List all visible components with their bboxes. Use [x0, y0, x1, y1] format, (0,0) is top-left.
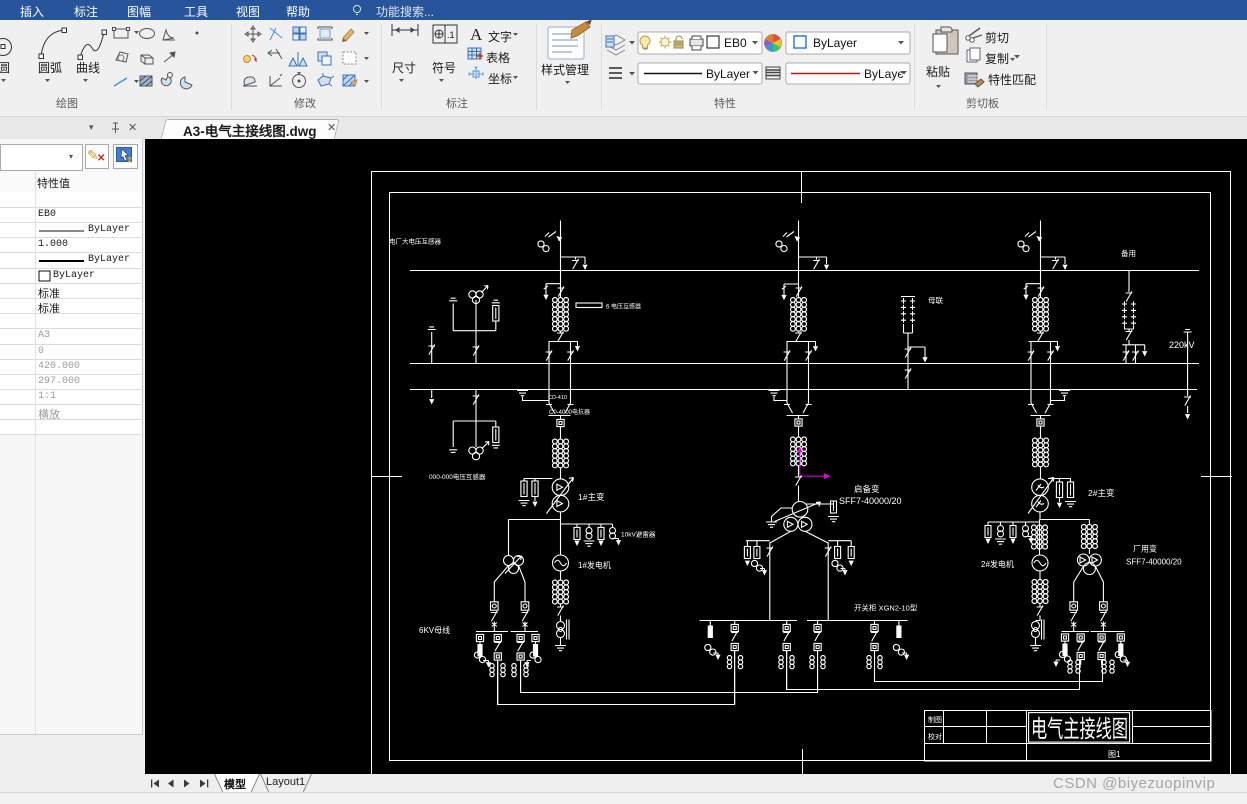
ground hook F2: [769, 391, 787, 401]
main transformer T2: [1028, 478, 1054, 514]
svg-text:000-000电压互感器: 000-000电压互感器: [429, 472, 486, 481]
sheet outer frame: [372, 172, 1231, 780]
svg-text:2#发电机: 2#发电机: [981, 559, 1014, 569]
wire below G2: [1039, 571, 1041, 580]
insulator string backup left: [1122, 301, 1127, 325]
disconnect F3 below chain: [1037, 331, 1044, 342]
svg-text:圆: 圆: [0, 61, 10, 75]
converging switches F2: [784, 403, 812, 419]
breaker box F3: [1037, 419, 1044, 426]
PT bay lower feeder from bus C: [473, 389, 480, 421]
insulator chain aux U2: [1081, 525, 1097, 549]
svg-text:启备变: 启备变: [854, 484, 880, 494]
PT bay M bus tie B-C: [905, 363, 912, 389]
svg-text:ByLayє: ByLayє: [864, 67, 903, 81]
split wire unit1: [509, 519, 561, 521]
tie line U1-T0 second: [521, 651, 818, 693]
draw group big icons: [0, 39, 12, 56]
wire T1 to split: [560, 512, 562, 520]
CT F3: [1018, 232, 1042, 252]
arrester tap T0 right: [828, 541, 854, 576]
UCS icon (magenta): [797, 447, 831, 480]
PT bay lower bracket: [449, 421, 500, 452]
feeder U2-c: [1098, 634, 1105, 665]
label bar 电压互感器 F1: [576, 303, 641, 311]
svg-text:A: A: [470, 25, 483, 44]
insulator chain F3 upper: [1033, 298, 1049, 332]
modify group: [245, 26, 261, 42]
disconnect F3 to bus A: [1041, 257, 1068, 270]
svg-text:220kV: 220kV: [1169, 340, 1195, 350]
wire F2 riser: [798, 221, 800, 271]
cable chains T0-b: [727, 656, 742, 669]
PT bay M hook: [908, 347, 928, 363]
svg-text:复制: 复制: [985, 52, 1009, 66]
title block: [925, 711, 1212, 762]
wire F3 riser: [1040, 221, 1042, 271]
insulator chain U2 gen: [1032, 525, 1048, 549]
cable chains U1-b: [490, 664, 505, 677]
insulator chain F2 lower: [791, 437, 807, 466]
PT-arrester cluster U2: [985, 522, 1040, 544]
breaker box F2: [795, 419, 802, 426]
svg-text:SFF7-40000/20: SFF7-40000/20: [839, 496, 902, 506]
svg-text:校对: 校对: [928, 732, 942, 741]
aux transformer U2 (3 windings): [1077, 549, 1101, 575]
split wire unit2: [1040, 519, 1090, 521]
svg-text:特性匹配: 特性匹配: [988, 72, 1036, 87]
insulator string M right: [910, 298, 915, 322]
disconnect G1: [557, 604, 564, 621]
disconnect backup lower: [1125, 326, 1134, 345]
clipboard group: [933, 27, 958, 54]
svg-text:符号: 符号: [432, 60, 456, 75]
earthing switch F2: [781, 284, 798, 300]
cable chains T0-e: [867, 656, 882, 669]
breaker bracket F1: [549, 342, 581, 352]
feeder T0-d: [814, 621, 821, 693]
disconnect backup upper: [1126, 270, 1133, 302]
wire T2 to split: [1039, 512, 1041, 520]
svg-text:样式管理: 样式管理: [541, 62, 589, 77]
properties group icons: [607, 35, 625, 55]
converging switches F3: [1028, 403, 1054, 419]
ground hook F3: [1051, 391, 1070, 401]
6kV bus U1 right: [511, 631, 539, 633]
wire F1 to transformer: [560, 468, 562, 479]
disconnect F2 main: [796, 286, 803, 296]
svg-text:.1: .1: [447, 30, 455, 40]
feeder T0-c: [783, 621, 790, 690]
main transformer T1: [547, 478, 574, 514]
svg-text:表格: 表格: [486, 50, 510, 65]
disconnect F2 to bus A: [799, 257, 830, 270]
svg-text:1#发电机: 1#发电机: [578, 560, 611, 570]
breaker bracket F2: [787, 342, 819, 352]
annotate group: [392, 24, 418, 36]
disconnect F1 below chain: [557, 331, 564, 342]
insulator chain F3 lower: [1033, 438, 1049, 467]
feeder U2-a: [1053, 634, 1070, 667]
arrester tap T0 left: [744, 541, 769, 576]
earthing switch F1 left jog: [543, 284, 560, 300]
svg-text:剪切: 剪切: [985, 30, 1009, 45]
svg-text:电厂大电压互感器: 电厂大电压互感器: [389, 237, 442, 246]
wire aux U1: [508, 520, 510, 556]
svg-text:厂用变: 厂用变: [1133, 544, 1157, 554]
PT bay M top bar: [901, 297, 915, 301]
disconnect F2 below chain2: [795, 466, 802, 502]
feeder U1-d: [524, 634, 541, 667]
generator G2: [1032, 555, 1048, 571]
aux transformer U1 (3 windings): [504, 556, 524, 574]
svg-text:备用: 备用: [1121, 248, 1136, 258]
bus A 220kV: [410, 270, 1199, 272]
ground excitation U1: [555, 646, 566, 651]
6kV bus T0 left: [700, 620, 798, 622]
wire aux U2: [1088, 520, 1090, 525]
outgoing switch 220kV: [1184, 389, 1191, 420]
svg-text:坐标: 坐标: [488, 72, 512, 86]
disconnect F3 main: [1038, 286, 1045, 296]
svg-text:EB0: EB0: [724, 36, 747, 50]
cable chains U2-c: [1102, 660, 1114, 673]
cable chains T0-c: [779, 656, 794, 669]
wire below G1: [560, 571, 562, 580]
insulator chain F2 upper: [791, 298, 807, 332]
breaker drop F3 right: [1047, 342, 1054, 404]
insulator chain G2: [1032, 580, 1048, 604]
centering mark bottom: [802, 749, 804, 774]
PT bay M lower wire: [904, 324, 913, 363]
insulator chain F1 upper: [553, 298, 569, 332]
centering mark left: [371, 476, 402, 478]
breaker box F1: [557, 419, 564, 426]
6kV bus U2 right: [1091, 631, 1125, 633]
svg-text:CD-410: CD-410: [548, 395, 567, 401]
incoming breaker U2 left: [1070, 602, 1078, 631]
wire F1 riser above bus A: [560, 221, 562, 271]
CT F1: [538, 232, 562, 252]
6kV bus T0 right: [807, 620, 908, 622]
arrester T0: [807, 501, 839, 522]
svg-text:6KV母线: 6KV母线: [419, 625, 450, 635]
svg-text:ByLayer: ByLayer: [706, 67, 750, 81]
style mgr: [548, 27, 584, 59]
insulator string backup right: [1131, 301, 1136, 325]
neutral ground T0: [766, 508, 792, 527]
disconnect G2: [1037, 604, 1044, 622]
ground excitation U2: [1030, 646, 1041, 651]
svg-text:文字: 文字: [488, 29, 512, 44]
breaker drop F3 left: [1028, 342, 1035, 404]
wire aux U2 to switchgear: [1074, 566, 1104, 603]
insulator string M left: [901, 298, 906, 322]
PT bay upper feeder to bus B: [473, 300, 480, 363]
wire F1 to lower chain: [560, 427, 562, 439]
surge arrester group T2: [1048, 479, 1076, 509]
feeder T0-a: [705, 621, 721, 660]
cable chains U1-c: [512, 664, 528, 677]
breaker drop F1 left: [546, 342, 553, 404]
tie line U1-T0: [498, 651, 735, 705]
svg-text:制图: 制图: [928, 715, 942, 724]
PT bay upper: voltage transformer: [469, 286, 488, 304]
insulator chain F1 lower: [553, 439, 569, 468]
breaker drop F1 right: [567, 342, 574, 404]
wire F3 below bus A: [1040, 270, 1042, 298]
PT-arrester cluster U1: [561, 524, 622, 546]
wire F2 below bus A: [798, 270, 800, 298]
sheet inner frame: [390, 193, 1211, 761]
breaker bracket backup: [1122, 345, 1147, 357]
svg-text:C0-4000电抗器: C0-4000电抗器: [549, 408, 590, 416]
feeder U2-b: [1077, 634, 1084, 665]
svg-text:圆弧: 圆弧: [38, 61, 62, 75]
svg-text:10kV避雷器: 10kV避雷器: [621, 530, 656, 539]
6kV bus U1 left: [476, 631, 508, 633]
bus C: [410, 389, 1197, 391]
insulator chain G1: [553, 580, 569, 604]
centering mark right: [1201, 476, 1232, 478]
svg-text:图1: 图1: [1108, 750, 1121, 759]
PT bay upper bracket: [449, 298, 500, 331]
secondary lead T0 right: [805, 531, 831, 620]
converging switches F1: [546, 403, 574, 419]
excitation transformer U2: [1032, 620, 1045, 646]
svg-text:曲线: 曲线: [76, 61, 100, 75]
svg-text:ByLayer: ByLayer: [813, 36, 857, 50]
tie line T0-U2 second: [875, 651, 1103, 682]
CT F2: [776, 232, 800, 252]
draw group small icons: [114, 29, 128, 38]
disconnect F2 below chain: [795, 331, 802, 342]
incoming breaker U2 right: [1100, 602, 1108, 631]
disconnect F1 to bus A: [561, 257, 588, 270]
svg-text:6 电压互感器: 6 电压互感器: [606, 303, 641, 311]
svg-text:SFF7-40000/20: SFF7-40000/20: [1126, 558, 1182, 567]
tie line T0-U2: [787, 651, 1080, 690]
svg-text:母联: 母联: [928, 296, 943, 305]
svg-text:2#主变: 2#主变: [1088, 488, 1115, 498]
feeder U1-a: [474, 634, 491, 667]
feeder T0-b: [731, 621, 738, 705]
wire aux U1 to switchgear: [494, 566, 525, 603]
svg-text:电气主接线图: 电气主接线图: [1031, 716, 1128, 743]
breaker drop backup right: [1132, 345, 1139, 363]
earthing switch F3: [1023, 284, 1040, 300]
wire generator branch U1: [560, 520, 562, 556]
surge arrester group T1: [519, 479, 553, 508]
bus B: [410, 363, 1199, 365]
wire F3 to transformer: [1040, 467, 1042, 479]
feeder T0-f: [893, 621, 909, 660]
svg-text:开关柜 XGN2-10型: 开关柜 XGN2-10型: [854, 603, 918, 613]
breaker drop backup left: [1123, 345, 1130, 363]
feeder U1-b: [494, 634, 501, 704]
wire F1 below bus A: [560, 270, 562, 298]
wire F3 to lower chain: [1040, 426, 1042, 438]
cable chains U2-b: [1068, 660, 1080, 673]
6kV bus U2 left: [1062, 631, 1090, 633]
incoming breaker U1 left: [491, 602, 499, 632]
breaker bracket F3: [1029, 342, 1061, 352]
disconnect F1 main: [558, 286, 565, 296]
breaker drop F2 left: [784, 342, 791, 404]
startup transformer T0 (3-winding): [775, 502, 821, 532]
feeder U1-c: [517, 634, 524, 692]
cable chains T0-d: [810, 656, 825, 669]
excitation transformer U1: [557, 618, 570, 645]
breaker drop F2 right: [805, 342, 812, 404]
wire generator branch U2: [1039, 520, 1041, 556]
arrester bay lower left: [429, 389, 434, 405]
PT bay lower voltage transformer: [469, 421, 489, 460]
svg-text:粘贴: 粘贴: [926, 64, 950, 79]
feeder U2-d: [1115, 634, 1130, 667]
generator G1: [553, 555, 569, 571]
ground hook F1: [517, 391, 549, 401]
secondary lead T0 left: [766, 531, 790, 620]
feeder T0-e: [871, 621, 878, 682]
svg-text:1#主变: 1#主变: [578, 492, 605, 502]
centering mark top: [801, 171, 803, 203]
incoming breaker U1 right: [521, 602, 529, 632]
svg-text:尺寸: 尺寸: [392, 61, 416, 75]
antenna 220kV: [1184, 330, 1192, 390]
wire F2 to lower chain: [798, 426, 800, 437]
arrester bay upper left: [428, 327, 436, 363]
